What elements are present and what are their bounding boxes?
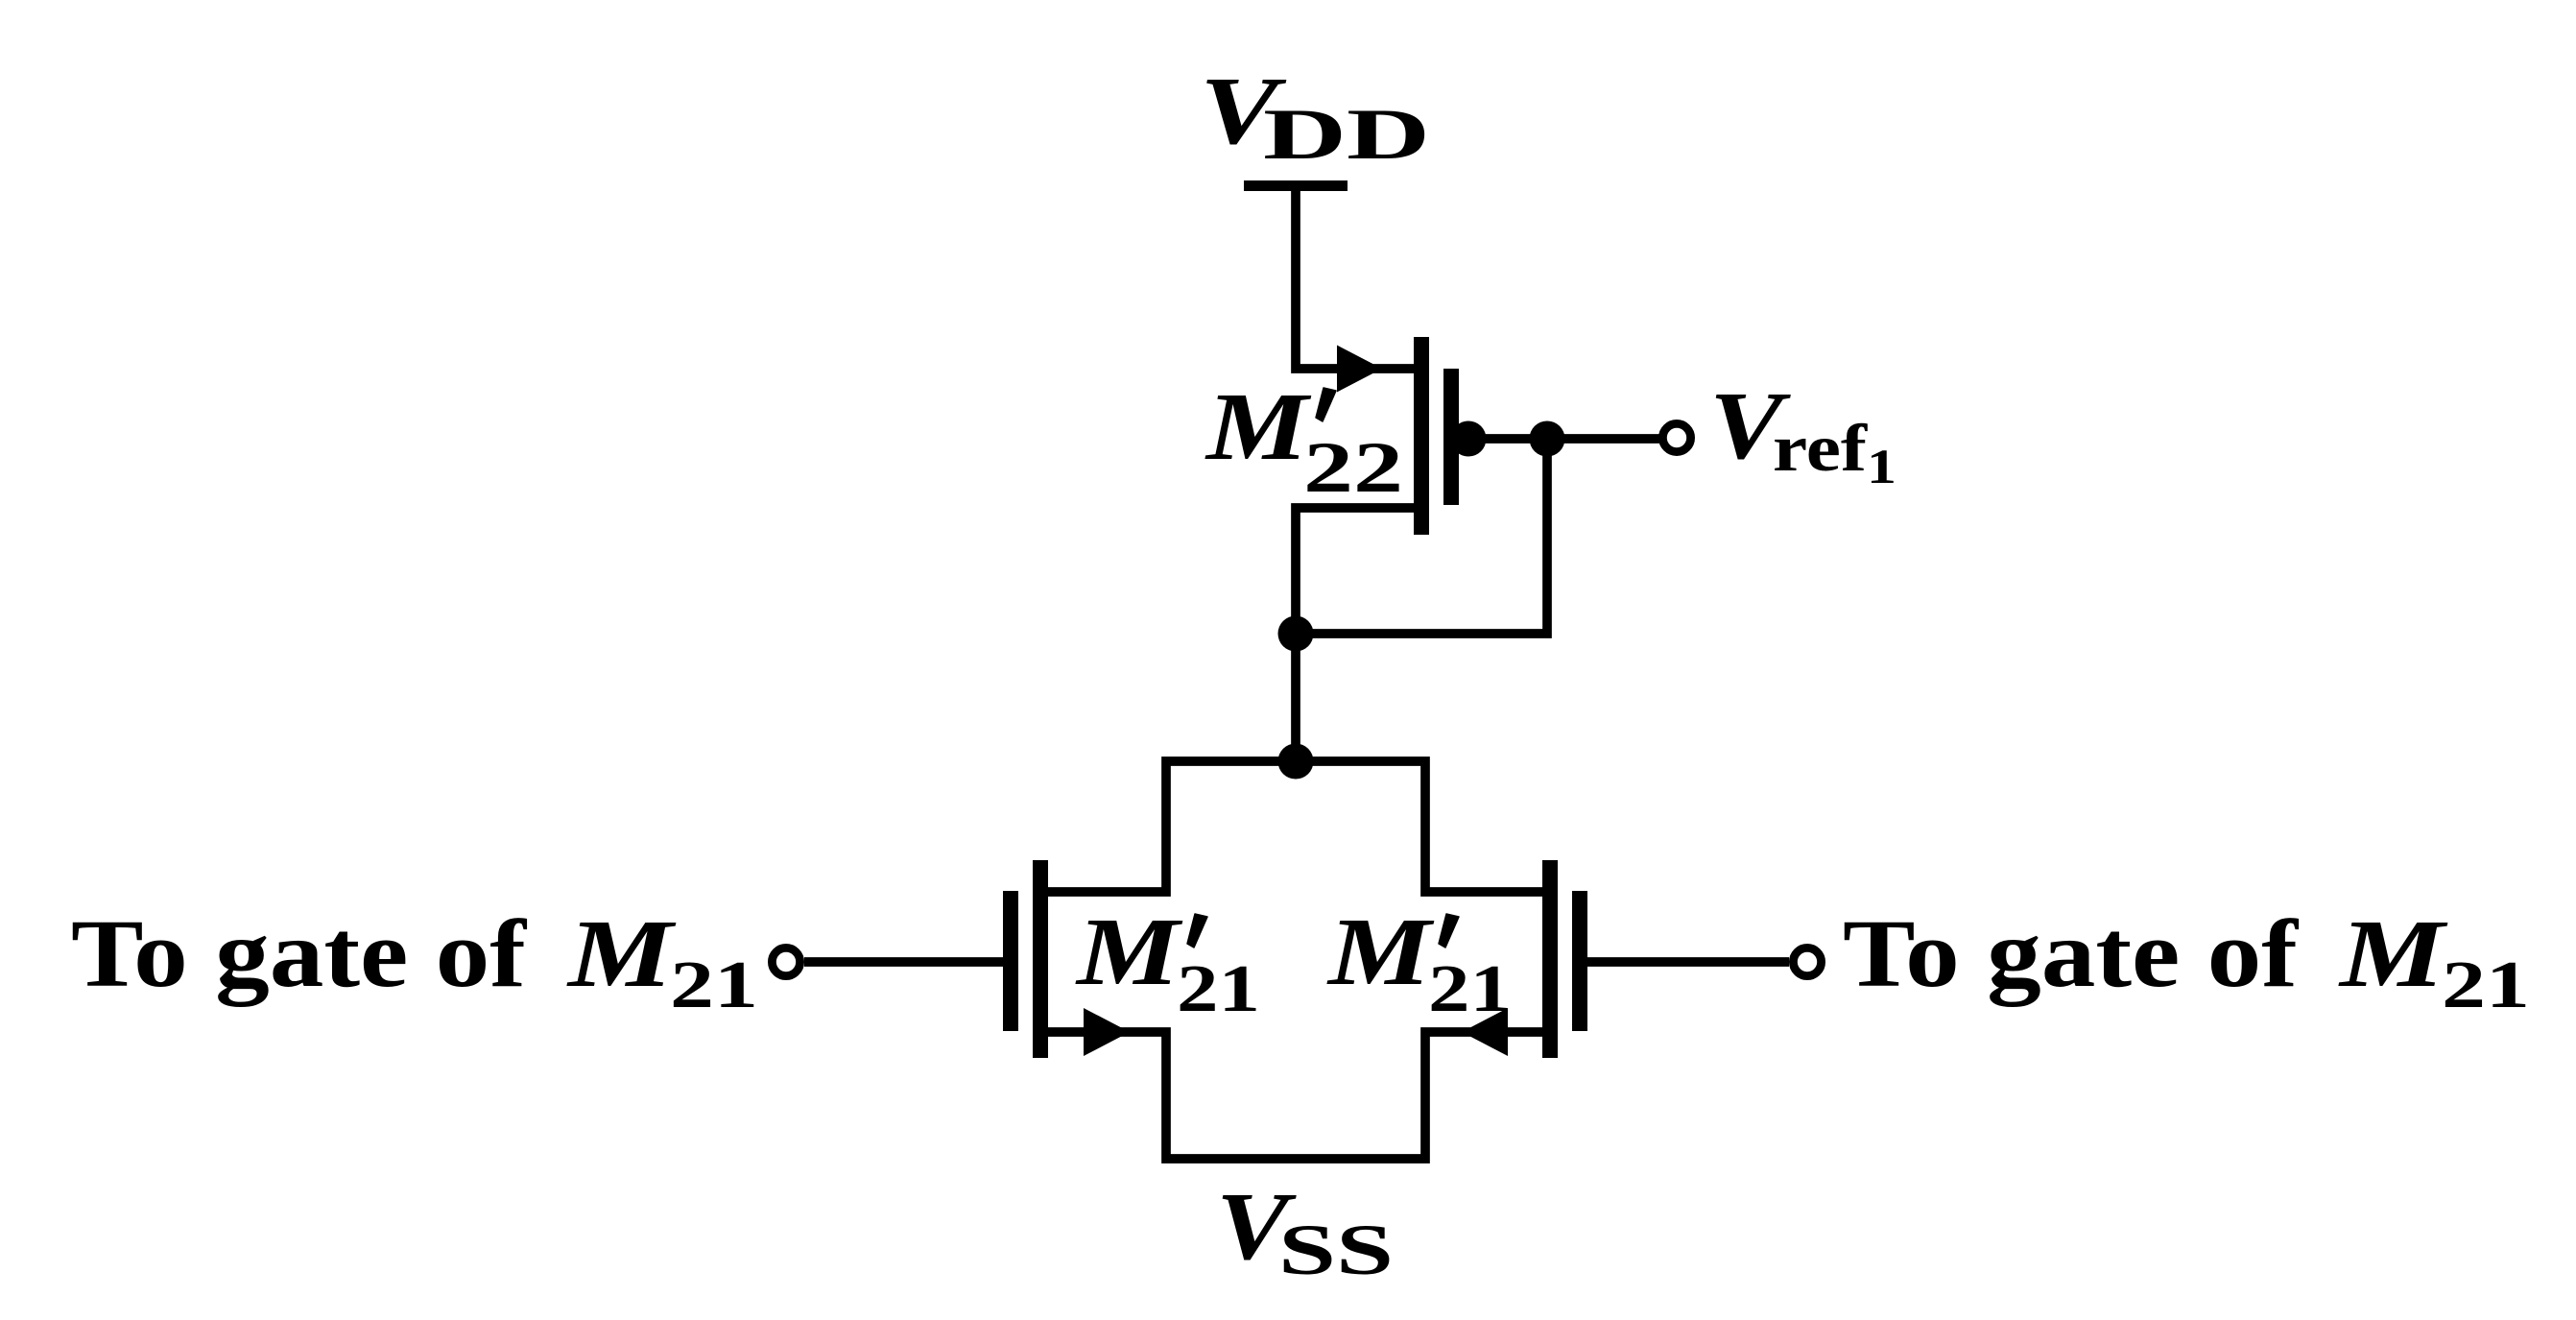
transistor M22 label M22prime (1205, 372, 1403, 508)
svg-text:21: 21 (1177, 952, 1260, 1026)
junction dot node A (1278, 616, 1314, 652)
power supply VDD bar (1244, 180, 1348, 191)
wire drain rail joining both M21 drains (1048, 761, 1542, 892)
svg-text:M: M (1205, 372, 1312, 480)
svg-text:1: 1 (1867, 441, 1896, 494)
svg-text:DD: DD (1263, 95, 1430, 175)
transistor M21-right gate bar (1572, 891, 1587, 1031)
transistor M21-left source arrow (1084, 1008, 1130, 1056)
svg-text:To gate of: To gate of (1843, 900, 2300, 1007)
transistor M22 gate bar (1443, 369, 1459, 505)
transistor M22 source arrow (1337, 346, 1382, 393)
svg-text:M: M (2338, 900, 2448, 1007)
junction dot Vref1 branch (1530, 421, 1565, 457)
transistor M21-left label M21prime (1075, 898, 1260, 1026)
svg-text:22: 22 (1303, 428, 1403, 508)
junction dot on drain rail (1278, 744, 1314, 780)
svg-text:To gate of: To gate of (71, 900, 528, 1007)
wire VDD stem and M22 source lead (1296, 185, 1414, 369)
wire M22 drain down to node A and on to drain rail (1296, 508, 1414, 761)
wire Vref1 branch down to node A (1296, 439, 1547, 634)
net label VSS (1216, 1172, 1394, 1290)
transistor M22 channel bar (1414, 337, 1429, 535)
svg-text:SS: SS (1278, 1211, 1394, 1290)
wire M22 gate to Vref1 terminal (1459, 434, 1663, 444)
net label Vref1 (1709, 372, 1896, 494)
transistor M21-right source arrow (1462, 1008, 1508, 1056)
transistor M21-left gate bar (1003, 891, 1018, 1031)
transistor M21-left channel bar (1033, 860, 1048, 1058)
label To gate of M21 (right) (1843, 900, 2530, 1022)
svg-text:M: M (1326, 898, 1435, 1005)
svg-text:21: 21 (1428, 952, 1512, 1026)
terminal right gate open circle (1793, 948, 1821, 975)
transistor M21-right channel bar (1542, 860, 1558, 1058)
wire source rail to VSS joining both M21 sources (1048, 1032, 1542, 1159)
svg-text:ref: ref (1773, 412, 1868, 486)
svg-text:M: M (566, 900, 677, 1007)
transistor M21-right label M21prime (1326, 898, 1512, 1026)
svg-text:M: M (1075, 898, 1183, 1005)
svg-text:21: 21 (670, 948, 758, 1022)
net label VDD (1200, 57, 1430, 175)
terminal Vref1 open circle (1662, 423, 1690, 451)
wire right gate terminal (1587, 957, 1789, 967)
label To gate of M21 (left) (71, 900, 758, 1022)
svg-text:21: 21 (2442, 948, 2530, 1022)
terminal left gate open circle (772, 948, 799, 975)
wire left gate terminal (804, 957, 1003, 967)
junction dot at M22 gate (1451, 421, 1487, 457)
